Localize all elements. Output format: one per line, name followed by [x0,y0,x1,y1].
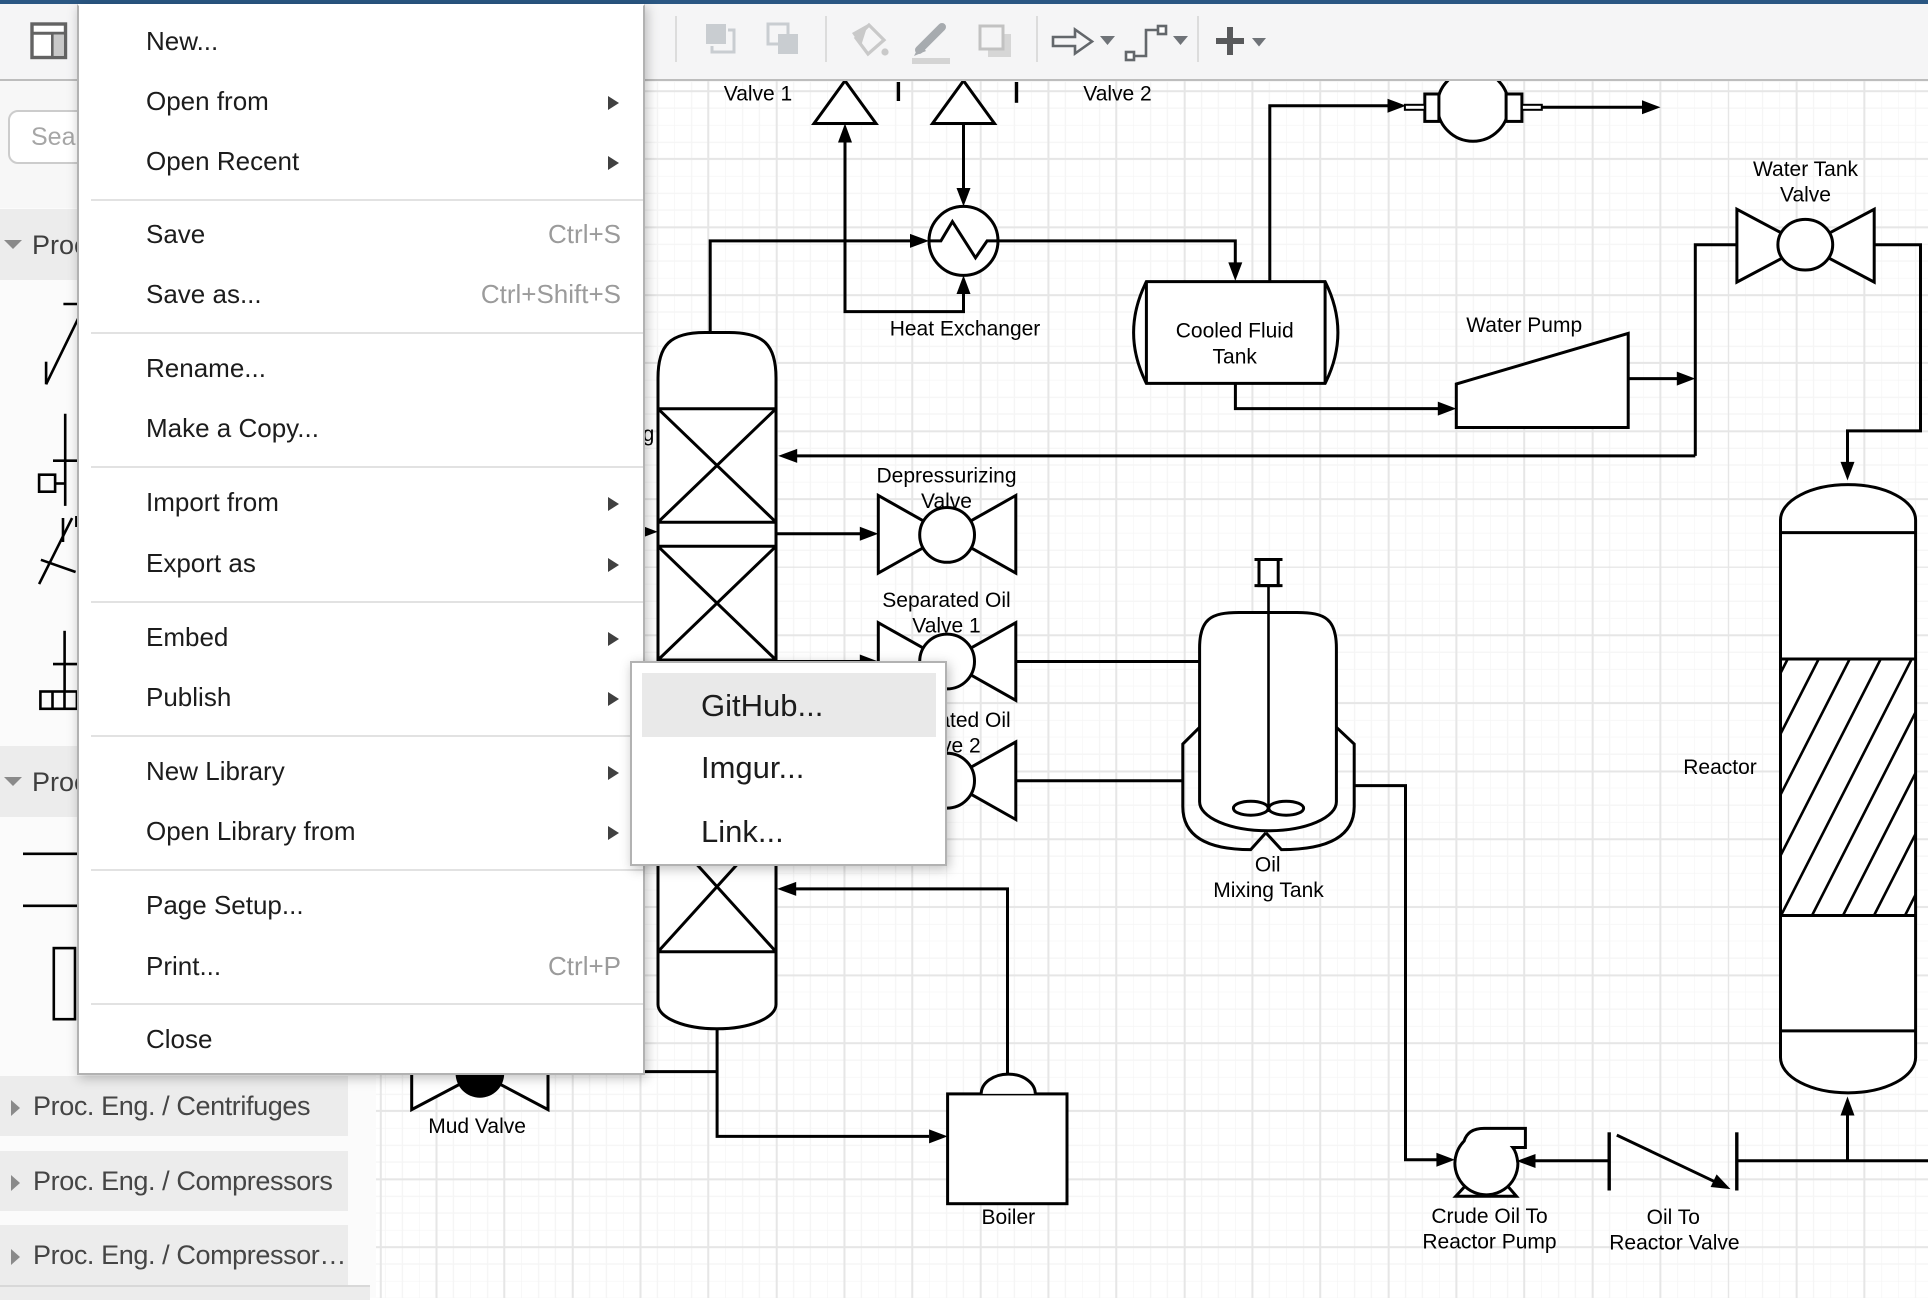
wire from tank bottom to water pump [1235,383,1438,408]
svg-text:Oil: Oil [1255,853,1281,876]
wire slide valve to right edge with reactor branch [1737,1159,1928,1162]
arrowhead left into crude pump right [1517,1154,1536,1168]
arrowhead right into crude pump [1436,1153,1455,1167]
sidebar shape: angle valve glyph [46,304,85,384]
mixer motor [1259,560,1278,586]
svg-text:Cooled Fluid: Cooled Fluid [1176,320,1294,343]
water tank valve right triangle [1806,209,1875,282]
wire mud valve to column bottom line [548,1070,717,1073]
column X section 3 [658,684,776,798]
rotary pump right nipple [1522,105,1542,110]
Valve 1 relief triangle [814,81,876,124]
depressurizing valve left triangle [878,496,947,574]
rotary pump left flange [1425,94,1439,121]
line color / edit style icon (disabled) [912,27,950,64]
svg-text:Crude Oil To: Crude Oil To [1431,1205,1547,1228]
column X section 2 [658,546,776,660]
heat exchanger circle [929,206,998,275]
wire from heat exchanger right to cooled fluid tank top [998,241,1235,263]
slide valve arrowhead [1711,1174,1731,1189]
arrowhead right at line end [1642,100,1661,114]
reactor hatched band [1781,659,1916,916]
oil mixing tank vessel [1200,613,1337,831]
mixer motor top bar [1255,558,1283,561]
wire column to separated oil valve 2 [776,779,878,782]
wire separated oil valve 2 to mixing tank jacket [1016,779,1183,782]
Valve 2 relief triangle [933,81,995,124]
wire from valve 2 down into heat exchanger top [962,124,965,189]
svg-text:Boiler: Boiler [981,1206,1035,1229]
separated oil valve 1 circle [920,634,975,689]
arrowhead right into column left edge [639,525,658,539]
toolbar separator [675,16,677,62]
rotary pump circle [1437,70,1508,141]
column top junction line [658,407,776,410]
boiler dome [981,1074,1035,1094]
to-back icon (disabled) [768,24,798,54]
separated oil valve 1 right triangle [947,623,1016,701]
depressurizing valve circle [920,508,975,563]
connection style icon [1053,30,1092,54]
arrowhead right into depressurizing valve [860,527,879,541]
to-front icon (disabled) [706,24,734,52]
toolbar separator [825,16,827,62]
crude pump body with volute casing [1455,1128,1525,1194]
wire from tank top up to rotary pump [1270,106,1388,282]
sidebar shape: angled valve 2 glyph [39,516,76,584]
slide valve left bar [1607,1132,1610,1190]
arrowhead right into heat exchanger left [910,234,929,248]
branch up into reactor bottom [1846,1115,1849,1161]
wire crude pump to slide valve [1535,1159,1609,1162]
svg-text:Depressurizing: Depressurizing [876,465,1016,488]
separated oil valve 1 left triangle [878,623,947,701]
wire mixing tank out to crude pump [1354,786,1437,1160]
svg-text:Mixing Tank: Mixing Tank [1213,879,1324,902]
svg-text:Reactor Pump: Reactor Pump [1422,1230,1556,1253]
tick mark B [1015,82,1018,103]
cooled fluid tank body [1134,282,1338,384]
arrowhead right into separated oil valve 1 [860,655,879,669]
sidebar shape: two-line glyph [23,854,77,906]
toolbar separator [1036,16,1038,62]
arrowhead down into heat exchanger top [957,188,971,206]
slide valve right bar [1735,1132,1738,1190]
wire column to depressurizing valve [776,532,860,535]
column X section 1 [658,409,776,523]
svg-text:Mud Valve: Mud Valve [428,1115,526,1138]
svg-text:Water Tank: Water Tank [1753,158,1859,181]
water pump trapezoid [1456,333,1628,427]
fill color icon (disabled) [852,24,889,56]
arrowhead right into riser junction [1677,372,1696,386]
toolbar separator [1197,16,1199,62]
separated oil valve 2 right triangle [947,742,1016,820]
wire separated oil valve 1 to mixing tank [1016,660,1200,663]
reactor bottom junction line [1781,1029,1916,1032]
arrowhead right into water pump [1438,402,1457,416]
wire from water pump right into riser [1628,377,1677,380]
sidebar shape: instrument glyph [40,631,85,709]
waypoint style icon [1126,26,1166,60]
arrowhead right into rotary pump [1388,99,1407,113]
long wire from riser to column [797,454,1695,457]
arrowhead left into column right edge (boiler return) [777,882,796,896]
oil mixing tank jacket right [1266,727,1354,849]
svg-text:Heat Exchanger: Heat Exchanger [890,318,1041,341]
svg-text:Reactor: Reactor [1683,756,1757,779]
riser wire to water tank valve [1695,245,1737,456]
wire column to separated oil valve 1 [776,660,860,663]
svg-text:Valve 1: Valve 1 [912,614,981,637]
boiler body [948,1094,1067,1204]
distillation column body [658,333,776,1029]
sidebar shape: column glyph [54,948,75,1019]
wire from water tank valve right to reactor top [1848,245,1921,462]
impeller left blade [1233,801,1268,815]
mud valve actuator dome [456,1049,505,1098]
cooled fluid tank right seam [1324,282,1327,384]
mixer shaft [1267,586,1270,812]
arrowhead right into boiler [929,1129,948,1143]
arrowhead down into cooled fluid tank [1228,262,1242,281]
rotary pump left nipple [1405,105,1425,110]
rotary pump right flange [1506,94,1522,121]
svg-text:Oil To: Oil To [1647,1206,1700,1229]
svg-text:Valve: Valve [1780,183,1831,206]
mud valve left triangle [412,1038,480,1110]
insert (+) icon [1216,27,1244,55]
wire from valve 1 down to heat exchanger bottom [845,140,964,312]
depressurizing valve right triangle [947,496,1016,574]
oil mixing tank jacket left [1183,727,1266,849]
svg-text:Valve 2: Valve 2 [1083,82,1152,105]
format panel toggle icon [32,24,66,58]
mud valve right triangle [480,1038,548,1110]
wire out of rotary pump right [1542,106,1643,109]
svg-text:Valve: Valve [921,490,972,513]
wire boiler to column return [796,889,1008,1074]
svg-text:Tank: Tank [1213,346,1258,369]
reactor top junction line [1781,531,1916,534]
crude pump base [1456,1183,1517,1196]
water tank valve left triangle [1737,209,1806,282]
arrowhead up into reactor bottom [1841,1097,1855,1116]
wire column bottom to boiler [717,1029,929,1137]
separated oil valve 2 circle [920,753,975,808]
reactor vessel [1781,485,1916,1093]
svg-text:Valve 1: Valve 1 [724,82,793,105]
column X section 4 [658,822,776,952]
slide valve diagonal [1617,1135,1714,1181]
sidebar shape: control valve glyph [39,414,85,506]
mixer motor bottom bar [1255,584,1283,587]
arrowhead left into column right edge [778,449,797,463]
svg-text:Separated Oil: Separated Oil [882,589,1010,612]
shadow icon (disabled) [980,26,1011,57]
arrowhead up into Valve 1 [838,124,852,143]
separated oil valve 2 left triangle [878,742,947,820]
heat exchanger zigzag [929,222,998,258]
wire from column top to heat exchanger left [710,241,910,336]
water tank valve ellipse [1778,219,1833,270]
impeller right blade [1269,801,1304,815]
arrowhead down into reactor top [1841,462,1855,481]
svg-text:Water Pump: Water Pump [1466,314,1582,337]
arrowhead up into heat exchanger bottom [957,275,971,294]
tick mark A [897,82,900,101]
svg-text:Reactor Valve: Reactor Valve [1609,1231,1739,1254]
cooled fluid tank left seam [1145,282,1148,384]
